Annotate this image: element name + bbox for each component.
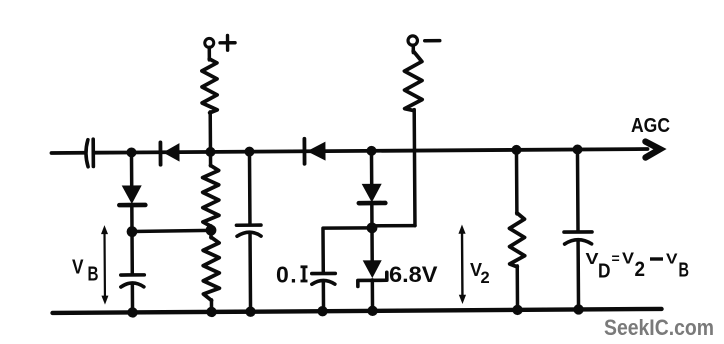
wire D4 to zener — [370, 204, 374, 261]
diode D2 on AGC bus pointing left — [302, 139, 306, 164]
node rail/211 — [206, 307, 216, 317]
capacitor C5 0.1 (at x=323) — [312, 272, 335, 276]
wire + terminal to R1 — [208, 47, 212, 59]
svg-text:V: V — [72, 257, 84, 279]
wire R3 to rail — [515, 266, 519, 310]
wire tap to lower resistor — [209, 226, 213, 238]
node main/517 — [511, 145, 521, 155]
wire C4 to rail — [576, 241, 580, 309]
wire R1 to AGC bus — [208, 112, 212, 152]
wire AGC bus to R-chain — [209, 152, 213, 166]
wire AGC bus to C2 — [248, 152, 252, 225]
resistor R5 lower (divider at x=211) — [203, 237, 219, 300]
capacitor C1 (series input cap on AGC bus) — [86, 140, 88, 167]
diode D1 on AGC bus pointing left — [159, 142, 163, 164]
node 372,228 — [367, 222, 378, 233]
node 211,229 divider tap — [206, 225, 217, 236]
capacitor C4 (at x=578) — [564, 230, 592, 234]
diode D4 (down, at x=372) — [370, 151, 374, 184]
svg-text:V: V — [666, 251, 678, 268]
resistor R1 (from + supply) — [202, 59, 217, 113]
svg-text:0.: 0. — [276, 262, 298, 288]
wire node132 to R-chain midpoint — [132, 230, 211, 231]
capacitor C3 (VB cap at x=132) — [121, 273, 144, 277]
measure arrow V2 (double headed) — [461, 230, 464, 298]
terminal - (negative supply) — [408, 36, 417, 45]
wire AGC bus to C4 — [576, 149, 580, 231]
measure arrow VB (double headed) — [103, 231, 106, 299]
wire main AGC bus left segment — [51, 151, 85, 155]
wire C5 to rail — [322, 281, 326, 311]
node main/372 — [366, 146, 376, 156]
svg-text:B: B — [679, 260, 690, 282]
svg-text:2: 2 — [481, 269, 490, 287]
node rail/322 — [317, 306, 327, 316]
wire bottom rail — [53, 309, 662, 313]
svg-text:2: 2 — [635, 258, 646, 281]
node 132,231 — [127, 226, 138, 237]
wire C3 to rail — [131, 284, 135, 312]
zener diode D5 6.8V (at x=372) — [363, 260, 382, 278]
wire - terminal to R2 — [412, 45, 416, 52]
wire C2 to rail — [248, 234, 252, 312]
node rail/517 — [512, 305, 522, 315]
svg-text:6.8V: 6.8V — [389, 262, 438, 287]
resistor R3 (at x=517) — [509, 213, 524, 267]
wire R2 down crossing AGC bus to zener node — [412, 110, 416, 226]
node main/132 — [126, 147, 136, 157]
resistor R2 (from - supply) — [404, 51, 422, 111]
node rail/372 — [367, 306, 377, 316]
node main/578 — [572, 144, 582, 154]
svg-text:=: = — [612, 250, 620, 266]
node rail/132 — [127, 307, 137, 317]
svg-text:SeekIC.com: SeekIC.com — [604, 315, 714, 340]
node main/211 — [205, 147, 215, 157]
svg-text:D: D — [598, 261, 611, 283]
node main/250 — [244, 147, 254, 157]
svg-text:B: B — [88, 264, 99, 286]
wire AGC bus to R3 — [515, 150, 519, 214]
svg-text:AGC: AGC — [631, 114, 670, 137]
resistor R4 upper (divider at x=211) — [203, 165, 219, 226]
diode D3 (down, at x=132) — [130, 152, 134, 185]
wire main AGC bus right segment — [94, 149, 647, 153]
AGC arrowhead — [645, 141, 660, 157]
wire corner to node 372,228 — [372, 224, 415, 228]
svg-text:V: V — [622, 251, 635, 268]
node rail/578 — [573, 304, 583, 314]
node rail/250 — [245, 306, 255, 316]
wire D3 to C3 — [130, 205, 134, 274]
wire node372 left to 0.1 cap branch — [323, 228, 372, 272]
wire R5 to rail — [210, 300, 214, 312]
terminal + (positive supply) — [205, 38, 214, 47]
wire zener to rail — [371, 280, 375, 311]
capacitor C2 (at x=250) — [236, 223, 260, 227]
